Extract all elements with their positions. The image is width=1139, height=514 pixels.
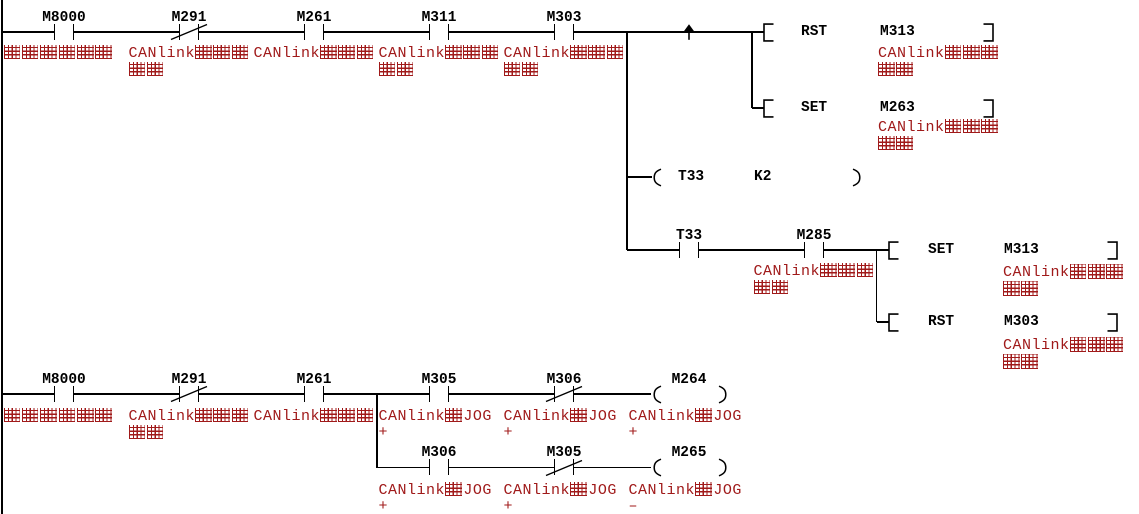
contact M305 (NO)	[429, 386, 431, 402]
comment CANlink轴定位/完成 under M313 (SET row)	[1003, 264, 1125, 298]
contact M285 (NO)	[804, 242, 806, 258]
rung2 wire: M291 to M261	[199, 393, 305, 394]
comment CANlink轴使能 under M261 rung1	[254, 45, 376, 62]
instruction text SET	[801, 100, 827, 116]
comment CANlink轴JOG+ under M306	[504, 408, 617, 441]
rising-edge arrow on rung1 wire	[683, 24, 695, 41]
branch wire down to T33 rung	[626, 32, 627, 250]
comment CANlink轴定位/完成 under M285	[754, 263, 876, 297]
rung1 wire: rail to M8000	[3, 31, 55, 32]
sub-rung wire: M306 to M305	[449, 467, 555, 468]
contact M311 (NO)	[429, 24, 431, 40]
operand M303 of RST	[1004, 314, 1039, 330]
SET instruction opening bracket [	[763, 99, 775, 118]
comment CANlink轴故障/输出 under M291 rung2	[129, 408, 251, 442]
comment CANlink轴JOG+ under M305	[379, 408, 492, 441]
elbow wire to RST bracket	[877, 321, 890, 322]
coil M265 closing paren )	[718, 458, 728, 477]
label M291 rung2	[139, 373, 239, 388]
label M8000 rung2	[14, 373, 114, 388]
NC slash of M291 rung1	[170, 23, 208, 41]
label M285	[764, 229, 864, 244]
contact T33 (NO)	[679, 242, 681, 258]
comment 程序运行状态 under M8000 rung2	[4, 408, 114, 425]
comment CANlink轴JOG- under coil M265	[629, 482, 742, 514]
rung1 wire: M303 to output branch	[574, 31, 764, 32]
comment CANlink轴定位/触发 under M303	[504, 45, 626, 79]
rung2 wire: rail to M8000	[3, 393, 55, 394]
label M261 rung2	[264, 373, 364, 388]
instruction text SET (row D)	[928, 242, 954, 258]
coil M264 opening paren (	[652, 385, 662, 404]
timer coil opening paren (	[652, 168, 662, 187]
comment CANlink轴回零/完成 under M311	[379, 45, 501, 79]
contact M306 (NC)	[554, 386, 556, 402]
operand M313 of SET	[1004, 242, 1039, 258]
rung2 wire: M8000 to M291	[74, 393, 180, 394]
instruction text RST	[801, 24, 827, 40]
label M265 above coil	[639, 446, 739, 461]
T33-rung wire from branch	[627, 249, 679, 250]
SET instruction closing bracket ]	[982, 99, 994, 118]
NC slash of M291 rung2	[170, 385, 208, 403]
comment CANlink轴JOG+ under M306 row G	[379, 482, 492, 514]
rung1 wire: M8000 to M291	[74, 31, 180, 32]
RST M303 closing bracket ]	[1106, 313, 1118, 332]
label M291 rung1	[139, 11, 239, 26]
sub-rung wire: branch to M306	[377, 467, 429, 468]
contact M306 (NO)	[429, 459, 431, 475]
left power rail	[1, 0, 3, 514]
coil M264 closing paren )	[718, 385, 728, 404]
branch wire down to RST M303 row	[876, 250, 877, 322]
SET M313 opening bracket [	[888, 241, 900, 260]
instruction text RST (row E)	[928, 314, 954, 330]
rung2 wire: M305 to M306	[449, 393, 555, 394]
stub wire to timer coil	[627, 176, 652, 177]
timer operand T33	[678, 169, 704, 185]
operand M313 of RST	[880, 24, 915, 40]
coil M265 opening paren (	[652, 458, 662, 477]
contact M305 (NC)	[554, 459, 556, 475]
rung1 wire: M261 to M311	[324, 31, 430, 32]
label T33	[639, 229, 739, 244]
contact M8000 (NO) rung1	[54, 24, 56, 40]
comment CANlink轴定位/完成 under M313 (RST row)	[878, 45, 1000, 79]
comment CANlink轴JOG+ under coil M264	[629, 408, 742, 441]
contact M261 (NO) rung2	[304, 386, 306, 402]
RST M303 opening bracket [	[888, 313, 900, 332]
comment CANlink轴定位/触发 under M303 operand	[1003, 337, 1125, 371]
comment CANlink轴JOG+ under M305 row G	[504, 482, 617, 514]
rung1 wire: M291 to M261	[199, 31, 305, 32]
comment CANlink轴定位/触发 under M263	[878, 119, 1000, 153]
RST instruction closing bracket ]	[982, 23, 994, 42]
rung2 wire: M261 to M305	[324, 393, 430, 394]
contact M8000 (NO) rung2	[54, 386, 56, 402]
wire T33 to M285	[699, 249, 805, 250]
label M305 rung2	[389, 373, 489, 388]
contact M303 (NO)	[554, 24, 556, 40]
comment 程序运行状态 under M8000 rung1	[4, 45, 114, 62]
comment CANlink轴使能 under M261 rung2	[254, 408, 376, 425]
comment CANlink轴故障/输出 under M291 rung1	[129, 45, 251, 79]
wire M285 to output branch	[824, 249, 889, 250]
timer preset K2	[754, 169, 771, 185]
label M306 rung2	[514, 373, 614, 388]
rung1 wire: M311 to M303	[449, 31, 555, 32]
contact M291 (NC) rung2	[179, 386, 181, 402]
SET M313 closing bracket ]	[1106, 241, 1118, 260]
label M305 row G	[514, 446, 614, 461]
sub-rung wire: M305 to coil M265	[574, 467, 652, 468]
rung2 wire: M306 to coil M264	[574, 393, 652, 394]
contact M291 (NC) rung1	[179, 24, 181, 40]
branch wire down to JOG- sub-rung	[376, 394, 377, 468]
branch wire down to SET M263 row	[751, 32, 752, 108]
label M8000 rung1	[14, 11, 114, 26]
label M261 rung1	[264, 11, 364, 26]
RST instruction opening bracket [	[763, 23, 775, 42]
NC slash of M306 rung2	[545, 385, 583, 403]
NC slash of M305 row G	[545, 459, 583, 477]
timer coil closing paren )	[852, 168, 862, 187]
contact M261 (NO) rung1	[304, 24, 306, 40]
label M264 above coil	[639, 373, 739, 388]
operand M263 of SET	[880, 100, 915, 116]
label M311	[389, 11, 489, 26]
label M306 row G	[389, 446, 489, 461]
label M303	[514, 11, 614, 26]
elbow wire to SET bracket	[752, 107, 764, 108]
